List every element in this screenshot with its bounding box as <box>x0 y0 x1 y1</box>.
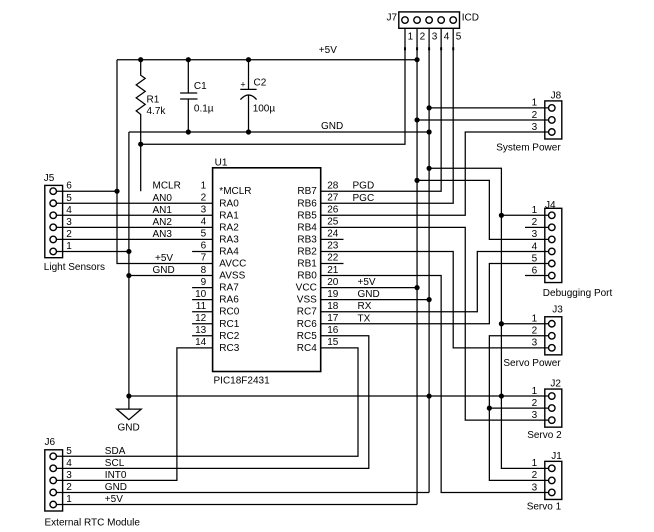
svg-text:2: 2 <box>66 229 72 240</box>
svg-text:2: 2 <box>532 326 538 337</box>
wire J8 pin2 to +5V net <box>417 119 549 121</box>
capacitor C2 100u (polarized) <box>240 60 256 132</box>
svg-text:J6: J6 <box>45 437 56 448</box>
svg-text:12: 12 <box>195 313 207 324</box>
junction AVSS GND <box>126 273 131 278</box>
wire J6 SDA to U1 RC4 pin15 <box>56 348 358 456</box>
wire J4 pin1 tap <box>501 214 549 216</box>
op-amp U1 body (PIC18F2431 IC box) <box>213 168 321 372</box>
svg-text:4.7k: 4.7k <box>147 106 167 117</box>
junction +5V branch on +5V vertical <box>414 178 419 183</box>
J7 pin 4 lead tick <box>440 47 442 50</box>
wire J2 pin2 tap <box>489 407 549 409</box>
svg-text:5: 5 <box>201 229 207 240</box>
svg-text:+: + <box>240 79 245 89</box>
svg-text:4: 4 <box>201 217 207 228</box>
svg-text:J2: J2 <box>550 379 561 390</box>
svg-text:Light Sensors: Light Sensors <box>44 262 105 273</box>
junction R1 top on +5V rail <box>138 57 143 62</box>
connector J3 (Servo Power) <box>545 317 562 355</box>
svg-text:6: 6 <box>532 265 538 276</box>
U1 pin 22 stub <box>321 263 344 265</box>
svg-text:3: 3 <box>66 470 72 481</box>
wire AN0 J5 pin5 to U1 RA0 <box>56 202 212 204</box>
svg-text:VSS: VSS <box>297 295 317 306</box>
svg-text:RA4: RA4 <box>219 246 239 257</box>
wire U1 TX pin17 to J4 pin5 <box>321 264 549 324</box>
svg-text:5: 5 <box>66 446 72 457</box>
junction J8 pin1 GND <box>427 105 432 110</box>
svg-text:+5V: +5V <box>155 253 173 264</box>
svg-text:RA2: RA2 <box>219 222 239 233</box>
svg-text:GND: GND <box>118 423 140 434</box>
junction C1 top on +5V rail <box>186 57 191 62</box>
wire U1 VCC pin20 to +5V net <box>321 287 417 289</box>
svg-text:11: 11 <box>196 301 207 312</box>
U1 pin 11 stub <box>192 311 213 313</box>
svg-text:RC4: RC4 <box>297 343 317 354</box>
svg-text:1: 1 <box>408 31 414 42</box>
svg-text:C1: C1 <box>194 81 207 92</box>
svg-text:3: 3 <box>532 122 538 133</box>
svg-text:RA1: RA1 <box>219 210 239 221</box>
svg-text:2: 2 <box>420 31 426 42</box>
svg-text:18: 18 <box>327 301 339 312</box>
svg-text:GND: GND <box>153 265 175 276</box>
svg-text:21: 21 <box>327 265 339 276</box>
wire GND vertical down to J1 pin1 <box>501 396 549 468</box>
J7 pin 2 lead tick <box>416 47 418 50</box>
svg-text:RB3: RB3 <box>297 234 317 245</box>
junction VCC +5V <box>414 285 419 290</box>
svg-text:GND: GND <box>105 482 127 493</box>
svg-text:*MCLR: *MCLR <box>219 186 251 197</box>
svg-text:3: 3 <box>532 410 538 421</box>
svg-text:MCLR: MCLR <box>153 181 181 192</box>
svg-text:AN0: AN0 <box>153 193 173 204</box>
svg-text:5: 5 <box>66 193 72 204</box>
svg-text:4: 4 <box>444 31 450 42</box>
svg-text:AN2: AN2 <box>153 217 173 228</box>
svg-text:PGC: PGC <box>353 193 375 204</box>
svg-text:6: 6 <box>66 181 72 192</box>
wire ground line to J2 pin1 <box>129 395 549 397</box>
svg-text:19: 19 <box>327 289 339 300</box>
connector J6 (External RTC Module) <box>45 450 63 511</box>
connector J1 (Servo 1) <box>545 461 562 499</box>
svg-text:RC5: RC5 <box>297 331 317 342</box>
U1 pin 9 stub <box>192 287 213 289</box>
svg-text:24: 24 <box>327 229 339 240</box>
junction J5 pin6 +5V <box>114 189 119 194</box>
svg-text:8: 8 <box>201 265 207 276</box>
wire AVSS pin8 to GND descender <box>129 275 213 277</box>
svg-text:3: 3 <box>201 205 207 216</box>
svg-text:RB6: RB6 <box>297 198 317 209</box>
U1 pin 13 stub <box>192 335 213 337</box>
junction GND branch on GND vertical <box>427 166 432 171</box>
svg-text:4: 4 <box>66 205 72 216</box>
svg-text:RB7: RB7 <box>297 186 317 197</box>
connector J2 (Servo 2) <box>545 389 562 427</box>
connector J8 (System Power) <box>545 101 562 139</box>
svg-text:6: 6 <box>201 241 207 252</box>
svg-text:GND: GND <box>358 289 380 300</box>
svg-text:1: 1 <box>532 205 538 216</box>
svg-text:4: 4 <box>532 241 538 252</box>
svg-text:+5V: +5V <box>319 45 337 56</box>
svg-text:5: 5 <box>456 31 462 42</box>
svg-text:14: 14 <box>195 337 207 348</box>
svg-text:2: 2 <box>532 217 538 228</box>
svg-text:J3: J3 <box>552 305 563 316</box>
wire J5 pin1 to GND descender <box>56 250 129 252</box>
connector J5 (Light Sensors) <box>45 185 63 257</box>
U1 pin 24 stub <box>321 238 344 240</box>
svg-text:3: 3 <box>532 338 538 349</box>
wire +5V branch to J4 pin3 <box>417 180 549 239</box>
svg-text:13: 13 <box>195 325 207 336</box>
capacitor C1 0.1u <box>180 60 197 132</box>
svg-text:23: 23 <box>327 241 339 252</box>
junction VSS GND <box>427 297 432 302</box>
svg-text:26: 26 <box>327 205 339 216</box>
svg-text:25: 25 <box>327 217 339 228</box>
svg-text:J7: J7 <box>386 12 397 23</box>
svg-text:+5V: +5V <box>358 277 376 288</box>
svg-text:Servo 1: Servo 1 <box>527 502 562 513</box>
svg-text:RA0: RA0 <box>219 198 239 209</box>
svg-text:100µ: 100µ <box>253 103 276 114</box>
svg-text:SCL: SCL <box>105 458 125 469</box>
svg-text:PGD: PGD <box>353 181 375 192</box>
svg-text:RB1: RB1 <box>297 259 317 270</box>
wire MCLR jumper R1 to J7 pin1 <box>141 28 405 144</box>
svg-text:22: 22 <box>327 253 339 264</box>
svg-text:PIC18F2431: PIC18F2431 <box>214 376 271 387</box>
wire J6 +5V to +5V net vertical <box>56 504 417 506</box>
junction J5 pin1 GND <box>126 249 131 254</box>
svg-text:C2: C2 <box>254 77 267 88</box>
svg-text:VCC: VCC <box>296 283 317 294</box>
svg-text:2: 2 <box>66 482 72 493</box>
svg-text:1: 1 <box>66 494 72 505</box>
J7 pin 3 lead tick <box>428 47 430 50</box>
svg-text:RC6: RC6 <box>297 319 317 330</box>
svg-text:AN1: AN1 <box>153 205 173 216</box>
svg-text:TX: TX <box>358 313 371 324</box>
junction GND rail end on J7 pin3 vertical <box>427 129 432 134</box>
svg-text:2: 2 <box>532 398 538 409</box>
svg-text:RX: RX <box>358 301 372 312</box>
svg-text:1: 1 <box>532 314 538 325</box>
svg-text:J4: J4 <box>545 200 556 211</box>
svg-text:1: 1 <box>201 180 207 191</box>
wire servo power J3 pin2 to J2 pin2 to J1 pin2 <box>489 336 549 481</box>
junction ground line at J4-J3 GND vertical <box>499 393 504 398</box>
wire J7 pin4 to PGD U1 pin28 <box>321 28 441 191</box>
wire J3 pin1 tap <box>501 323 549 325</box>
svg-text:RB5: RB5 <box>297 210 317 221</box>
junction C2 top on +5V rail <box>246 57 251 62</box>
wire U1 RC3 pin14 to J6 INT0 <box>56 348 212 481</box>
junction J8 pin2 +5V <box>414 117 419 122</box>
wire AN3 J5 pin2 to U1 RA3 <box>56 238 212 240</box>
svg-text:2: 2 <box>532 470 538 481</box>
wire U1 VSS pin19 to GND net <box>321 299 429 301</box>
svg-text:J5: J5 <box>44 173 55 184</box>
svg-text:0.1µ: 0.1µ <box>194 103 214 114</box>
svg-text:RC2: RC2 <box>219 331 239 342</box>
svg-text:SDA: SDA <box>105 446 126 457</box>
svg-text:Debugging Port: Debugging Port <box>543 288 613 299</box>
svg-text:U1: U1 <box>215 157 228 168</box>
wire J5 pin6 to +5V descender <box>56 190 117 192</box>
svg-text:INT0: INT0 <box>105 470 127 481</box>
wire U1 RB0 pin21 to J1 pin3 <box>321 276 549 493</box>
junction ground line at GND net vertical <box>427 393 432 398</box>
node +5V rail <box>117 59 417 61</box>
wire J8 pin1 to GND net <box>429 107 549 109</box>
svg-text:5: 5 <box>532 253 538 264</box>
svg-text:3: 3 <box>432 31 438 42</box>
svg-text:28: 28 <box>327 180 339 191</box>
svg-text:20: 20 <box>327 277 339 288</box>
svg-text:2: 2 <box>201 192 207 203</box>
svg-text:1: 1 <box>66 241 72 252</box>
junction C2 bottom on GND rail <box>246 129 251 134</box>
J4 pin6 stub <box>525 275 549 277</box>
svg-text:System Power: System Power <box>496 142 561 153</box>
wire GND branch to J4 pin1 J3 pin1 <box>429 168 501 396</box>
svg-text:RC3: RC3 <box>219 343 239 354</box>
wire U1 RB4 pin25 to J2 pin3 <box>321 227 549 420</box>
junction J2 pin2 servo power <box>487 406 492 411</box>
junction J4 pin1 GND <box>499 213 504 218</box>
wire AN1 J5 pin4 to U1 RA1 <box>56 214 212 216</box>
svg-text:1: 1 <box>532 458 538 469</box>
wire J6 GND to GND net vertical <box>56 491 429 493</box>
connector J4 (Debugging Port) <box>545 208 562 282</box>
connector J7 (ICD header) <box>399 12 460 28</box>
svg-text:2: 2 <box>532 110 538 121</box>
svg-text:RA6: RA6 <box>219 295 239 306</box>
svg-text:3: 3 <box>66 217 72 228</box>
J4 pin2 stub <box>525 226 549 228</box>
svg-text:External RTC Module: External RTC Module <box>45 517 141 528</box>
svg-text:RC7: RC7 <box>297 307 317 318</box>
wire +5V net vertical J7 pin2 down to J6 +5V row <box>416 28 418 504</box>
junction +5V rail and J7 pin2 <box>414 57 419 62</box>
svg-text:ICD: ICD <box>462 12 479 23</box>
svg-text:9: 9 <box>201 277 207 288</box>
svg-text:3: 3 <box>532 229 538 240</box>
svg-text:GND: GND <box>321 121 343 132</box>
svg-text:1: 1 <box>532 386 538 397</box>
svg-text:RB2: RB2 <box>297 246 317 257</box>
svg-text:7: 7 <box>201 253 207 264</box>
junction R1 and MCLR jumper <box>138 142 143 147</box>
svg-text:16: 16 <box>327 325 339 336</box>
U1 pin 6 stub <box>192 250 213 252</box>
ground symbol <box>117 396 142 420</box>
J7 pin 1 lead tick <box>404 47 406 50</box>
svg-text:10: 10 <box>195 289 207 300</box>
svg-text:3: 3 <box>532 482 538 493</box>
wire J6 SCL to U1 RC5 pin16 <box>56 336 369 469</box>
svg-text:J8: J8 <box>551 90 562 101</box>
wire GND net vertical J7 pin3 down to J6 GND row <box>428 28 430 492</box>
svg-text:+5V: +5V <box>105 494 123 505</box>
svg-text:J1: J1 <box>551 451 562 462</box>
svg-text:RA3: RA3 <box>219 234 239 245</box>
junction C1 bottom on GND rail <box>186 129 191 134</box>
svg-text:RC0: RC0 <box>219 307 239 318</box>
svg-text:RB4: RB4 <box>297 222 317 233</box>
junction J3 pin1 GND <box>499 321 504 326</box>
svg-text:AVCC: AVCC <box>219 259 246 270</box>
node GND rail <box>129 131 429 133</box>
wire AN2 J5 pin3 to U1 RA2 <box>56 226 212 228</box>
svg-text:RB0: RB0 <box>297 271 317 282</box>
svg-text:AN3: AN3 <box>153 229 173 240</box>
svg-text:RA7: RA7 <box>219 283 239 294</box>
U1 pin 10 stub <box>192 299 213 301</box>
wire J8 pin3 to U1 RB5 pin26 <box>321 132 549 215</box>
wire U1 RB2 pin23 to J3 pin3 <box>321 251 549 347</box>
svg-text:17: 17 <box>327 313 339 324</box>
junction ground line at GND descender <box>126 393 131 398</box>
wire +5V rail left descender to AVCC pin7 <box>117 60 213 264</box>
svg-text:4: 4 <box>66 458 72 469</box>
svg-text:15: 15 <box>327 337 339 348</box>
svg-text:RC1: RC1 <box>219 319 239 330</box>
J7 pin 5 lead tick <box>452 47 454 50</box>
resistor R1 4.7k (between +5V and MCLR) <box>136 60 145 192</box>
svg-text:Servo 2: Servo 2 <box>527 430 562 441</box>
wire J7 pin5 to PGC U1 pin27 <box>321 28 454 203</box>
U1 pin 12 stub <box>192 323 213 325</box>
svg-text:Servo Power: Servo Power <box>503 358 561 369</box>
svg-text:R1: R1 <box>147 95 160 106</box>
svg-text:1: 1 <box>532 98 538 109</box>
svg-text:AVSS: AVSS <box>219 271 245 282</box>
wire GND rail left descender to ground line <box>128 132 130 396</box>
wire U1 RX pin18 to J4 pin4 <box>321 251 549 311</box>
svg-text:27: 27 <box>327 192 339 203</box>
